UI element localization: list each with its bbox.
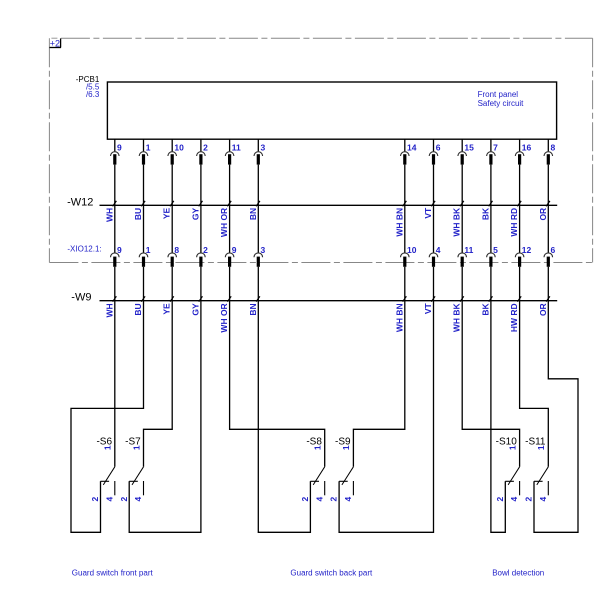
function text guard switch back part [290,568,373,577]
svg-text:3: 3 [261,143,266,153]
svg-text:4: 4 [314,497,324,502]
W9 wire tick and colour label BN [248,296,260,315]
guard switch -S8 (NO contact) [300,437,325,502]
svg-text:4: 4 [509,497,519,502]
terminal -XIO12.1 pin 2 [197,205,209,267]
terminal -XIO12.1 pin 10 [401,205,417,267]
svg-text:2: 2 [203,245,208,255]
W9 wire tick and colour label WH BN [394,296,406,332]
svg-text:Guard switch front part: Guard switch front part [72,568,154,577]
svg-text:-W12: -W12 [67,197,93,209]
svg-text:11: 11 [232,143,241,153]
svg-text:Safety circuit: Safety circuit [478,99,525,108]
svg-text:-W9: -W9 [71,291,91,303]
svg-text:9: 9 [232,245,237,255]
wire segment XIO to W9 column OR [547,267,549,301]
svg-text:BU: BU [133,303,143,315]
svg-text:1: 1 [341,445,351,450]
wire BU loop to S6 pin 2 [71,301,144,533]
guard switch -S7 (NO contact) [119,437,144,502]
svg-text:WH OR: WH OR [219,303,229,332]
W12 wire tick and colour label GY [190,201,202,220]
function text bowl detection [492,568,544,577]
W9 wire tick and colour label WH BK [452,296,464,332]
svg-text:8: 8 [551,143,556,153]
PCB1 connector pin 14 [401,139,417,205]
svg-text:OR: OR [538,303,548,316]
W9 wire tick and colour label GY [190,296,202,315]
svg-text:WH BK: WH BK [452,207,462,237]
wire VT to S9 pin 2 [339,301,433,533]
W9 wire tick and colour label WH OR [219,296,231,332]
svg-text:7: 7 [493,143,498,153]
svg-text:1: 1 [146,143,151,153]
svg-text:8: 8 [174,245,179,255]
svg-text:6: 6 [436,143,441,153]
PCB1 connector pin 6 [429,139,441,205]
terminal -XIO12.1 pin 6 [544,205,556,267]
W12 wire tick and colour label WH BK [452,201,464,237]
svg-text:2: 2 [329,497,339,502]
svg-text:10: 10 [407,245,417,255]
svg-text:BN: BN [248,208,258,220]
W9 wire tick and colour label HW RD [509,296,521,332]
svg-text:GY: GY [190,207,200,220]
svg-text:Bowl detection: Bowl detection [492,568,544,577]
wire segment XIO to W9 column BK [490,267,492,301]
terminal -XIO12.1 pin 9 [111,205,123,267]
W9 wire tick and colour label VT [423,296,435,314]
svg-text:9: 9 [117,245,122,255]
svg-text:1: 1 [507,445,517,450]
svg-text:2: 2 [495,497,505,502]
svg-text:2: 2 [119,497,129,502]
svg-text:WH RD: WH RD [509,208,519,237]
terminal -XIO12.1 pin 4 [429,205,441,267]
svg-text:1: 1 [313,445,323,450]
wire segment XIO to W9 column BU [143,267,145,301]
svg-text:1: 1 [146,245,151,255]
svg-text:4: 4 [436,245,441,255]
PCB1 connector pin 2 [197,139,209,205]
PCB1 connector pin 9 [111,139,123,205]
guard switch -S10 (NO contact) [495,437,520,502]
terminal -XIO12.1 pin 12 [515,205,531,267]
cable W12 line [67,197,557,209]
svg-text:HW RD: HW RD [509,303,519,332]
terminal -XIO12.1 pin 5 [487,205,499,267]
svg-text:14: 14 [407,143,417,153]
wire GY to S7 pin 2 [129,301,201,533]
wire WH BK to S10 pin 1 [462,301,519,467]
guard switch -S9 (NO contact) [329,437,354,502]
svg-text:WH OR: WH OR [219,208,229,237]
svg-text:3: 3 [261,245,266,255]
W9 wire tick and colour label WH [104,296,116,317]
svg-text:2: 2 [90,497,100,502]
W12 wire tick and colour label WH [104,201,116,222]
interlock boundary +2 (dash-dot border) [49,38,592,262]
svg-text:2: 2 [524,497,534,502]
svg-text:10: 10 [174,143,184,153]
svg-text:6: 6 [551,245,556,255]
PCB1 connector pin 3 [254,139,266,205]
wire BN to S8 pin 2 [258,301,310,533]
terminal -XIO12.1 pin 9 [225,205,237,267]
svg-text:2: 2 [300,497,310,502]
PCB1 connector pin 10 [168,139,184,205]
svg-text:4: 4 [538,497,548,502]
terminal -XIO12.1 pin 3 [254,205,266,267]
svg-text:5: 5 [493,245,498,255]
W12 wire tick and colour label OR [538,201,550,221]
W12 wire tick and colour label WH OR [219,201,231,237]
terminal -XIO12.1 pin 11 [458,205,474,267]
wire segment XIO to W9 column WH BK [461,267,463,301]
W12 wire tick and colour label YE [162,201,174,219]
svg-text:WH: WH [104,208,114,222]
PCB1 connector pin 8 [544,139,556,205]
svg-text:VT: VT [423,303,433,315]
W12 wire tick and colour label BN [248,201,260,220]
svg-text:WH BN: WH BN [394,303,404,332]
wire OR loop to S11 pin 2 [534,301,578,533]
svg-text:WH BK: WH BK [452,302,462,332]
wire segment XIO to W9 column BN [257,267,259,301]
terminal -XIO12.1 pin 8 [168,205,180,267]
wire WH OR to S8 pin 1 [230,301,325,467]
svg-text:WH BN: WH BN [394,208,404,237]
W12 wire tick and colour label WH RD [509,201,521,237]
function text guard switch front part [72,568,154,577]
wire segment XIO to W9 column HW RD [519,267,521,301]
svg-text:4: 4 [104,497,114,502]
PCB1 connector pin 15 [458,139,474,205]
svg-text:16: 16 [522,143,532,153]
wire segment XIO to W9 column WH BN [404,267,406,301]
wire segment XIO to W9 column VT [433,267,435,301]
W12 wire tick and colour label VT [423,201,435,219]
svg-text:15: 15 [464,143,474,153]
svg-text:WH: WH [104,303,114,317]
PCB1 connector pin 11 [225,139,241,205]
PCB U1 -PCB1 front panel safety circuit block [76,75,557,139]
svg-text:+2: +2 [50,38,60,48]
W9 wire tick and colour label OR [538,296,550,316]
svg-text:4: 4 [133,497,143,502]
svg-text:12: 12 [522,245,532,255]
guard switch -S6 (NO contact) [90,437,115,502]
wire segment XIO to W9 column WH OR [229,267,231,301]
svg-text:OR: OR [538,208,548,221]
cable W9 line [71,291,557,303]
W9 wire tick and colour label YE [162,296,174,314]
svg-text:VT: VT [423,207,433,219]
PCB1 connector pin 7 [487,139,499,205]
W9 wire tick and colour label BU [133,296,145,315]
svg-text:/6.3: /6.3 [86,90,100,99]
wire HW RD to S11 pin 1 [520,301,549,467]
svg-text:Guard switch back part: Guard switch back part [290,568,373,577]
svg-text:11: 11 [464,245,473,255]
svg-text:YE: YE [162,303,172,315]
svg-text:GY: GY [190,303,200,316]
svg-text:1: 1 [131,445,141,450]
structure label +2 box [49,38,61,48]
svg-text:1: 1 [536,445,546,450]
svg-text:BK: BK [480,302,490,315]
wire YE to S7 pin 1 [144,301,173,467]
wire segment XIO to W9 column WH [114,267,116,301]
wire segment XIO to W9 column YE [171,267,173,301]
W12 wire tick and colour label WH BN [394,201,406,237]
terminal strip label -XIO12.1: [67,245,101,254]
wire BK to S10 pin 2 [491,301,505,533]
svg-text:BN: BN [248,303,258,315]
W9 wire tick and colour label BK [480,296,492,315]
svg-text:Front panel: Front panel [478,90,519,99]
W12 wire tick and colour label BK [480,201,492,220]
wire segment XIO to W9 column GY [200,267,202,301]
svg-text:2: 2 [203,143,208,153]
PCB1 connector pin 1 [139,139,151,205]
wire WH BN to S9 pin 1 [353,301,404,467]
svg-text:4: 4 [343,497,353,502]
svg-text:1: 1 [103,445,113,450]
wire WH to S6 pin 1 [114,301,116,467]
svg-text:BK: BK [480,207,490,220]
svg-text:9: 9 [117,143,122,153]
svg-text:-XIO12.1:: -XIO12.1: [67,245,101,254]
guard switch -S11 (NO contact) [524,437,549,502]
PCB1 connector pin 16 [515,139,531,205]
W12 wire tick and colour label BU [133,201,145,220]
svg-text:BU: BU [133,208,143,220]
svg-text:YE: YE [162,207,172,219]
terminal -XIO12.1 pin 1 [139,205,151,267]
